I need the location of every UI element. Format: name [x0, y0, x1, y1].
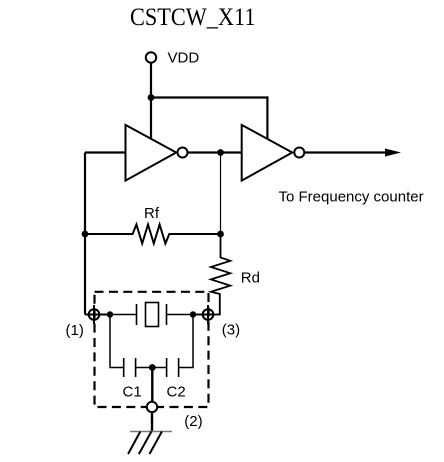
svg-text:VDD: VDD: [168, 50, 200, 67]
dashed resonator package outline: [95, 292, 209, 407]
node C1/C2 junction: [149, 364, 156, 371]
inverter U1: [126, 125, 177, 181]
ceramic resonator X1: [137, 303, 167, 327]
capacitor C1: [124, 358, 136, 377]
node resonator right junction: [190, 311, 196, 317]
wire center node to C2: [152, 367, 166, 369]
svg-text:C2: C2: [167, 383, 186, 400]
node U1 output junction: [217, 149, 224, 156]
node VDD rail junction: [148, 94, 155, 101]
wire into terminal (1): [85, 314, 110, 316]
wire terminal (2) to ground: [151, 412, 153, 431]
svg-text:(2): (2): [184, 413, 202, 430]
terminal (2): [147, 402, 157, 412]
wire U2 output: [304, 151, 386, 153]
node Rf/Rd junction: [217, 231, 224, 238]
wire node to resonator left electrode: [110, 314, 137, 316]
wire C1 to center node: [136, 367, 153, 369]
capacitor C2: [167, 358, 179, 377]
terminal (3): [203, 305, 214, 324]
wire U1 output to U2 input: [188, 151, 242, 153]
power terminal VDD: [146, 52, 156, 62]
node resonator left junction: [107, 311, 113, 317]
wire node to terminal (3): [193, 314, 214, 316]
resistor Rf: [85, 225, 221, 244]
inverter U1 output bubble: [178, 148, 188, 158]
wire center node to terminal (2): [151, 368, 153, 403]
wire left node down to C1: [110, 315, 124, 368]
svg-text:Rf: Rf: [144, 205, 160, 222]
inverter U2: [242, 125, 293, 181]
arrowhead output: [385, 149, 401, 157]
terminal (1): [89, 305, 100, 324]
svg-text:CSTCW_X11: CSTCW_X11: [130, 4, 256, 31]
svg-text:(1): (1): [66, 322, 84, 339]
svg-text:(3): (3): [222, 322, 240, 339]
inverter U2 output bubble: [294, 148, 304, 158]
svg-text:To Frequency counter: To Frequency counter: [279, 189, 424, 206]
wire VDD rail to inverter U2: [151, 98, 267, 141]
wire C2 to right node: [179, 315, 193, 368]
wire input to inverter U1: [85, 151, 126, 153]
ground: [128, 432, 172, 455]
svg-text:C1: C1: [123, 383, 142, 400]
node Rf left junction: [82, 231, 89, 238]
wire U1 output junction down to Rf right node: [220, 153, 222, 235]
wire resonator right electrode to node: [167, 314, 194, 316]
wire VDD terminal to rail: [150, 63, 152, 98]
wire left feedback vertical: [84, 153, 86, 315]
svg-text:Rd: Rd: [241, 270, 260, 287]
resistor Rd: [211, 234, 230, 315]
wire VDD rail into inverter U1: [150, 98, 152, 141]
